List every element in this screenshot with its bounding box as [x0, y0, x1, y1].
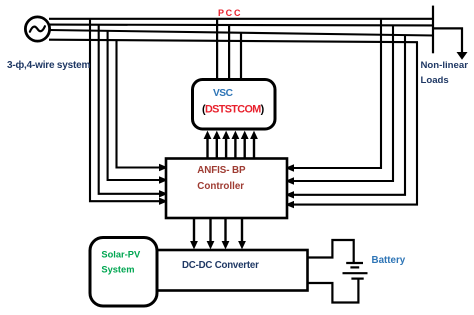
solar block PV source	[90, 238, 157, 307]
wire to non-linear loads	[433, 28, 462, 53]
arrowhead left input 4	[159, 198, 168, 205]
arrowhead left input 3	[159, 190, 168, 197]
svg-text:P C C: P C C	[218, 8, 241, 18]
arrow gate signal 1 controller to VSC	[204, 131, 212, 158]
wire PCC tap 1 to VSC	[216, 19, 218, 81]
wire left tap phase A to controller (bottom arrow)	[90, 19, 159, 202]
arrow control signal 3 controller to DC-DC converter	[222, 218, 230, 249]
wire right tap phase C to controller	[294, 35, 405, 195]
wire left tap neutral to controller (top arrow)	[117, 40, 160, 168]
battery B1 plate 3	[343, 272, 368, 274]
arrowhead left input 1	[159, 164, 168, 171]
svg-text:Battery: Battery	[372, 255, 406, 266]
arrowhead right input 2	[285, 177, 294, 184]
arrow gate signal 4 controller to VSC	[232, 131, 240, 158]
svg-text:DC-DC Converter: DC-DC Converter	[182, 260, 259, 271]
battery B1 plate 1	[346, 262, 363, 264]
arrowhead non-linear loads	[457, 52, 468, 60]
wire bus neutral	[49, 40, 418, 43]
inverter block VSC (DSTSTCOM) U1	[193, 80, 276, 130]
svg-text:System: System	[101, 264, 134, 274]
AC source G1 (3-phase supply)	[25, 17, 49, 41]
battery B1 plate 2	[350, 266, 359, 268]
arrow control signal 4 controller to DC-DC converter	[238, 218, 246, 249]
arrow gate signal 6 controller to VSC	[250, 131, 258, 158]
svg-text:VSC: VSC	[213, 88, 234, 99]
wire left tap phase C to controller	[108, 31, 160, 180]
wire right tap neutral to controller (bottom arrow)	[294, 42, 417, 205]
svg-text:Solar-PV: Solar-PV	[101, 249, 141, 259]
controller block ANFIS-BP U2	[166, 159, 287, 219]
wire right tap phase B to controller	[294, 25, 393, 181]
arrow gate signal 2 controller to VSC	[213, 131, 221, 158]
arrow control signal 2 controller to DC-DC converter	[207, 218, 215, 249]
wire bus phase A	[49, 18, 434, 20]
arrow gate signal 3 controller to VSC	[222, 131, 230, 158]
converter block DC-DC	[154, 250, 308, 291]
wire PCC tap 3 to VSC	[240, 33, 242, 80]
wire left tap phase B to controller	[99, 25, 160, 194]
svg-text:3-ф,4-wire system: 3-ф,4-wire system	[7, 59, 90, 71]
arrowhead left input 2	[159, 176, 168, 183]
wire non-linear load feeder vertical	[432, 6, 434, 54]
arrow control signal 1 controller to DC-DC converter	[190, 218, 198, 249]
wire battery positive lead	[308, 240, 354, 262]
svg-text:ANFIS- BP: ANFIS- BP	[197, 165, 246, 176]
battery B1 plate 4	[351, 278, 363, 280]
arrowhead right input 1	[285, 164, 294, 171]
wire battery negative lead	[308, 279, 359, 303]
wire bus phase B	[49, 24, 434, 27]
wire PCC tap 2 to VSC	[228, 25, 230, 80]
wire right tap phase A to controller (top arrow)	[294, 18, 381, 168]
wire bus phase C	[49, 30, 434, 36]
svg-text:Loads: Loads	[421, 75, 449, 86]
arrowhead right input 3	[285, 191, 294, 198]
svg-text:(DSTSTCOM): (DSTSTCOM)	[202, 103, 265, 115]
arrowhead right input 4	[285, 201, 294, 208]
svg-text:Non-linear: Non-linear	[421, 60, 469, 71]
arrow gate signal 5 controller to VSC	[241, 131, 249, 158]
svg-text:Controller: Controller	[197, 181, 244, 192]
